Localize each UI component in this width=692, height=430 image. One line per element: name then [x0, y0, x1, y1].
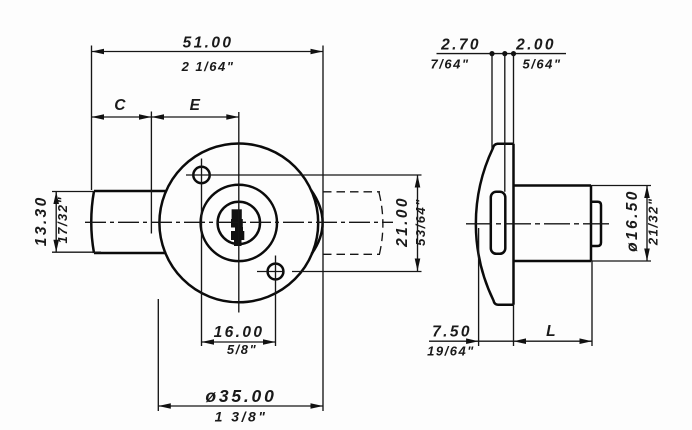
- cam edge crescent at right of flange: [311, 190, 323, 254]
- svg-text:ø35.00: ø35.00: [205, 386, 276, 406]
- screw hole top horizontal crosshair / extension to 21.00: [186, 174, 422, 176]
- dim L: dimension line: [514, 340, 593, 342]
- dim C-E: middle extension line: [150, 112, 152, 234]
- dim 16.00: right arrow: [263, 339, 276, 345]
- dim 21.00: top arrow: [415, 175, 421, 188]
- dim ø35.00: extension line left: [157, 299, 159, 411]
- svg-text:ø16.50: ø16.50: [624, 189, 641, 252]
- dim 13.30: extension line top: [52, 191, 94, 193]
- tailpiece nub: [591, 202, 601, 246]
- svg-text:7/64": 7/64": [431, 57, 470, 72]
- dim 21.00: bottom arrow: [415, 259, 421, 272]
- cam slot side view: [491, 192, 506, 254]
- dim ø35.00: left arrow: [158, 403, 171, 409]
- dim 2.00: extension line right / flange face extension: [513, 54, 515, 144]
- svg-text:13.30: 13.30: [33, 195, 50, 246]
- dim C: dimension line: [92, 116, 152, 118]
- dim C: right arrow: [139, 114, 151, 120]
- svg-text:E: E: [190, 97, 203, 114]
- dashed cam alternate position bottom edge: [323, 253, 380, 255]
- dim E: dimension line: [151, 116, 238, 118]
- dim 16.00: dimension line: [202, 341, 276, 343]
- side view center line: [466, 223, 612, 225]
- dim 2.70: extension line left: [491, 54, 493, 150]
- dim 7.50: extension line left (from flange bulge): [478, 228, 480, 346]
- dim ø35.00: right arrow: [311, 403, 324, 409]
- screw hole bottom: [268, 264, 284, 280]
- flange outer circle ø35: [159, 144, 318, 303]
- dim ø35.00: dimension line: [158, 405, 323, 407]
- dim 13.30: extension line bottom: [52, 251, 101, 253]
- dim L: left arrow: [514, 338, 527, 344]
- dim 7.50/L: extension line middle (flange face): [513, 305, 515, 346]
- flange side profile: [476, 144, 514, 305]
- latch cam left tab: [91, 191, 167, 253]
- svg-text:2.00: 2.00: [515, 37, 556, 54]
- dim 51.00: right arrow: [311, 49, 324, 55]
- dim ø16.50: extension line bottom: [591, 260, 651, 262]
- dim 51.00: extension line left: [91, 46, 93, 191]
- dim 51.00: dimension line: [92, 51, 324, 53]
- dim 7.50: dimension line with leader: [429, 340, 514, 342]
- dim E: right arrow: [226, 114, 239, 120]
- svg-text:C: C: [114, 97, 128, 114]
- dim 16.00: left arrow: [202, 339, 215, 345]
- dim 2.70/2.00: middle extension line: [504, 54, 506, 192]
- keyhole key profile: [231, 209, 244, 246]
- dim C: left arrow: [92, 114, 105, 120]
- dim 13.30: dimension line: [55, 192, 57, 253]
- svg-text:19/64": 19/64": [427, 344, 475, 359]
- dim 2.70/2.00: dot terminators: [489, 51, 494, 56]
- dim 21.00: dimension line: [417, 175, 419, 271]
- dim L: right arrow: [580, 338, 593, 344]
- dashed cam alternate position right arc: [379, 193, 383, 254]
- dim ø16.50: bottom arrow: [644, 249, 650, 262]
- screw hole bottom horizontal crosshair / extension to 21.00: [257, 271, 422, 273]
- cylinder body side view: [514, 186, 592, 262]
- svg-text:5/8": 5/8": [227, 342, 257, 357]
- dim ø16.50: top arrow: [644, 186, 650, 199]
- horizontal center line front view: [85, 221, 393, 223]
- svg-text:53/64": 53/64": [413, 198, 428, 246]
- svg-text:L: L: [546, 323, 558, 340]
- dim 51.00: extension line right (shared with ø35): [322, 46, 324, 412]
- svg-text:16.00: 16.00: [214, 324, 265, 341]
- cylinder face circle ø16.5: [201, 185, 277, 261]
- svg-text:51.00: 51.00: [183, 35, 234, 52]
- screw hole top: [193, 167, 209, 183]
- dim 51.00: left arrow: [92, 49, 105, 55]
- dashed cam alternate position top edge: [323, 191, 380, 193]
- dim 7.50: arrow at left extension: [466, 338, 479, 344]
- svg-text:5/64": 5/64": [523, 57, 562, 72]
- dim L: extension line right: [591, 261, 593, 346]
- svg-text:21/32": 21/32": [646, 197, 661, 246]
- dim ø16.50: dimension line: [646, 186, 648, 262]
- vertical center line front view: [238, 112, 240, 313]
- svg-text:2 1/64": 2 1/64": [181, 59, 235, 74]
- screw hole bottom vertical crosshair / extension: [275, 256, 277, 347]
- dim ø16.50: extension line top: [591, 185, 651, 187]
- svg-text:1 3/8": 1 3/8": [215, 409, 268, 425]
- svg-text:2.70: 2.70: [440, 37, 481, 54]
- svg-text:17/32": 17/32": [55, 196, 70, 244]
- dim E: left arrow: [151, 114, 164, 120]
- svg-text:21.00: 21.00: [394, 196, 411, 248]
- dim 13.30: bottom arrow: [53, 240, 59, 253]
- svg-text:7.50: 7.50: [432, 324, 472, 341]
- dim 13.30: top arrow: [53, 192, 59, 205]
- key plug circle: [218, 202, 260, 244]
- screw hole top vertical crosshair / extension: [201, 159, 203, 347]
- dim 2.70/2.00: dimension line: [437, 53, 567, 55]
